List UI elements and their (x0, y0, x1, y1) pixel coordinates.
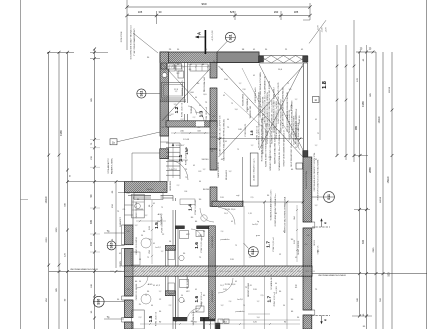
interior wall vertical main (210, 63, 217, 79)
svg-text:1.7: 1.7 (266, 241, 272, 248)
svg-text:H=2,60: H=2,60 (276, 286, 278, 294)
svg-text:1,2: 1,2 (203, 169, 206, 171)
svg-text:POW. 10,00 m2: POW. 10,00 m2 (201, 291, 203, 306)
svg-text:75: 75 (231, 103, 233, 105)
window in upper-left wall (161, 135, 169, 137)
svg-text:60: 60 (275, 213, 277, 215)
fixtures 1.4 (180, 199, 195, 205)
svg-text:1,2: 1,2 (257, 301, 260, 303)
kitchen counter 1.5 (132, 194, 145, 218)
terrace leader diagonals (242, 68, 262, 108)
svg-text:1,2: 1,2 (239, 83, 242, 85)
svg-text:75: 75 (185, 177, 187, 179)
svg-text:15610: 15610 (387, 176, 390, 183)
partition 1.2 bath (160, 99, 186, 101)
dark corner blob bottom (216, 323, 221, 329)
svg-text:OKNO O6: OKNO O6 (318, 246, 320, 255)
svg-text:TERMA: TERMA (190, 106, 193, 114)
svg-text:90: 90 (295, 147, 297, 149)
svg-text:75: 75 (167, 97, 169, 99)
svg-text:PION KAN.: PION KAN. (160, 214, 163, 225)
svg-text:KUCHNIA GAZ: KUCHNIA GAZ (203, 76, 206, 91)
svg-text:1,20: 1,20 (248, 213, 252, 215)
leader line to +5 labels (309, 20, 326, 43)
svg-text:UMOWNA GRANICA DZIALKI: UMOWNA GRANICA DZIALKI (318, 274, 346, 277)
svg-text:UMOWNA GRANICA DZIALKI: UMOWNA GRANICA DZIALKI (70, 268, 98, 271)
svg-text:90: 90 (247, 109, 249, 111)
svg-text:WC: WC (186, 234, 190, 236)
terrace corner posts (259, 56, 264, 62)
svg-text:PLYTA: PLYTA (290, 104, 293, 111)
svg-text:1.2: 1.2 (174, 106, 180, 113)
svg-text:45: 45 (223, 95, 225, 97)
partition top rooms (184, 63, 186, 122)
svg-text:45: 45 (153, 243, 155, 245)
svg-text:340: 340 (362, 239, 365, 244)
svg-text:WC KOMPAKT: WC KOMPAKT (186, 274, 189, 289)
svg-text:105: 105 (138, 10, 143, 14)
svg-text:1,2: 1,2 (315, 145, 318, 147)
lower unit bathroom walls (173, 317, 215, 321)
svg-text:1,2: 1,2 (249, 257, 252, 259)
svg-text:75: 75 (161, 207, 163, 209)
left dimension chains (48, 52, 50, 329)
fixtures lower 1.5 (132, 310, 145, 329)
svg-text:PODCIAG P1: PODCIAG P1 (244, 123, 247, 137)
svg-text:75: 75 (235, 245, 237, 247)
svg-text:kg: kg (257, 221, 259, 223)
svg-text:wyl.: wyl. (236, 195, 240, 197)
svg-text:1365: 1365 (361, 101, 365, 107)
svg-text:B: B (325, 318, 327, 322)
svg-text:80/200: 80/200 (147, 189, 154, 191)
svg-text:14810: 14810 (378, 116, 381, 123)
svg-text:14,2: 14,2 (220, 285, 224, 287)
section circle S12 (248, 247, 258, 257)
svg-text:TYNK CIENKOWARSTWOWY: TYNK CIENKOWARSTWOWY (133, 28, 136, 56)
svg-text:90: 90 (169, 115, 171, 117)
svg-text:90: 90 (163, 189, 165, 191)
svg-text:OKAP 60: OKAP 60 (298, 115, 301, 124)
svg-text:NOWY TRZPIEN ZELBETOWY 25x25 C: NOWY TRZPIEN ZELBETOWY 25x25 C20/25 (278, 82, 280, 124)
bathroom corner fixtures block (161, 63, 167, 69)
svg-text:1,2: 1,2 (161, 251, 164, 253)
svg-text:90/200: 90/200 (202, 159, 209, 161)
svg-text:NOWE NADPROZE STALOWE 2xC160 W: NOWE NADPROZE STALOWE 2xC160 WG KONSTR (268, 80, 271, 129)
svg-text:SCIANY DZIALOWE GR. 12cm Z PLY: SCIANY DZIALOWE GR. 12cm Z PLYT G-K (219, 115, 222, 155)
terrace inner dim line (217, 138, 303, 140)
top dimension chain (127, 6, 310, 8)
svg-text:290: 290 (274, 10, 279, 14)
svg-text:1365: 1365 (59, 130, 63, 136)
svg-text:B: B (325, 221, 327, 225)
interior wall horizontal hall top (166, 121, 217, 127)
right dimension chains (336, 45, 338, 156)
fixtures 1.3 (190, 64, 208, 71)
svg-text:ROZBIORKA: ROZBIORKA (242, 93, 245, 105)
svg-text:posadzka: posadzka (221, 239, 231, 241)
plot boundary line right (312, 273, 427, 275)
svg-text:1,2: 1,2 (295, 99, 298, 101)
svg-text:IZOLACJA TERMICZNA WELNA MINER: IZOLACJA TERMICZNA WELNA MINERALNA (282, 87, 285, 129)
svg-text:2865: 2865 (368, 167, 372, 173)
exterior wall: lower left with window gaps (124, 193, 126, 226)
small box right mid (296, 163, 303, 169)
window sills right wall (312, 221, 315, 223)
exterior wall: right (303, 157, 312, 222)
svg-text:1.3: 1.3 (199, 110, 205, 117)
wall pier left (160, 149, 169, 159)
partition lines in 1.7 (242, 157, 244, 206)
svg-text:60: 60 (151, 305, 153, 307)
svg-text:45: 45 (295, 257, 297, 259)
svg-text:60: 60 (275, 283, 277, 285)
svg-text:2865: 2865 (373, 247, 375, 253)
section circle S11 left (137, 89, 146, 98)
svg-text:+2,78: +2,78 (326, 27, 328, 33)
svg-text:OKNO O2 120/150: OKNO O2 120/150 (136, 236, 138, 254)
partition 1.5/1.4 (172, 196, 174, 247)
interior chain 1.7 right (296, 205, 298, 262)
svg-text:60: 60 (227, 119, 229, 121)
svg-text:90: 90 (181, 295, 183, 297)
svg-text:PARAPET: PARAPET (119, 216, 122, 226)
svg-text:POW. 10,00 m2: POW. 10,00 m2 (206, 106, 208, 121)
svg-text:±0,000 = 393,22 m n.p.m.: ±0,000 = 393,22 m n.p.m. (253, 158, 255, 181)
section circle S11 top (225, 32, 235, 42)
svg-text:BELKA B1: BELKA B1 (225, 169, 228, 180)
svg-text:+5,08: +5,08 (322, 27, 324, 33)
section circle S10 upper (107, 241, 116, 250)
svg-text:GAZOBETONOWEGO GR 24cm NA ZAPR: GAZOBETONOWEGO GR 24cm NA ZAPRAWIE CW (264, 76, 267, 124)
svg-text:POW. 10,00 m2: POW. 10,00 m2 (155, 311, 157, 326)
svg-text:1.4: 1.4 (188, 204, 194, 211)
svg-text:1.6: 1.6 (194, 296, 200, 303)
svg-text:525: 525 (230, 10, 235, 14)
svg-text:A: A (197, 32, 202, 35)
svg-text:RYNNA STALOWA FI 125 OCYNK: RYNNA STALOWA FI 125 OCYNK (295, 108, 298, 139)
section B marker lower (312, 315, 330, 317)
wall 1.6/1.7 (209, 226, 216, 266)
interior wall horizontal 1.4/1.7 (212, 201, 243, 206)
svg-text:2,4: 2,4 (221, 231, 224, 233)
svg-text:x: x (292, 269, 293, 271)
svg-text:ROZBIORKA ISTNIEJACEJ SCIANY D: ROZBIORKA ISTNIEJACEJ SCIANY DZIALOWEJ (273, 88, 276, 133)
svg-text:OBROBKA BLACH. PARAPETY ZEWN.: OBROBKA BLACH. PARAPETY ZEWN. STAL (313, 153, 316, 192)
svg-text:UM: UM (198, 235, 202, 237)
svg-text:GRZEJNIK: GRZEJNIK (170, 180, 172, 191)
section circle S10 lower (93, 296, 104, 307)
svg-text:NA RUSZCIE STALOWYM WYPELN. WE: NA RUSZCIE STALOWYM WYPELN. WELNA (223, 119, 226, 161)
svg-text:1,20: 1,20 (248, 285, 252, 287)
interior dim chain below top wall (168, 66, 210, 68)
svg-text:90: 90 (141, 235, 143, 237)
svg-text:90: 90 (181, 161, 183, 163)
svg-text:14810: 14810 (380, 196, 382, 203)
window sills left wall (122, 224, 125, 226)
svg-text:75: 75 (147, 257, 149, 259)
svg-text:60: 60 (199, 181, 201, 183)
svg-text:x: x (226, 271, 227, 273)
svg-text:ISTNIEJACA SCIANA ZEWNETRZNA Z: ISTNIEJACA SCIANA ZEWNETRZNA Z PUSTAKA (259, 72, 262, 118)
svg-text:ISTN. PION: ISTN. PION (121, 31, 123, 42)
svg-text:ZEWN.: ZEWN. (120, 260, 122, 267)
svg-text:PION WENT.: PION WENT. (212, 236, 214, 249)
svg-text:90: 90 (139, 281, 141, 283)
svg-text:45: 45 (153, 285, 155, 287)
svg-text:2,2: 2,2 (177, 185, 180, 187)
table 1.5 (141, 238, 151, 248)
ticks along right chains (391, 109, 394, 112)
svg-text:1.NP: 1.NP (185, 146, 189, 154)
interior chain bottom (140, 323, 300, 325)
svg-text:WANNA 170x75: WANNA 170x75 (181, 80, 184, 96)
section A arrow top (204, 30, 206, 54)
door arcs (218, 208, 235, 225)
svg-text:14x17,8: 14x17,8 (169, 169, 177, 171)
svg-text:SCIANKA GK 12: SCIANKA GK 12 (270, 273, 273, 289)
svg-text:h=2,2: h=2,2 (155, 247, 161, 249)
party wall band (125, 266, 313, 276)
svg-text:ZLEW: ZLEW (137, 209, 144, 211)
svg-text:1.8: 1.8 (250, 131, 254, 136)
fixtures 1.6 (180, 231, 189, 239)
svg-text:2,4: 2,4 (229, 301, 232, 303)
svg-text:MUR 24: MUR 24 (287, 110, 289, 118)
jog wall in 1.5/1.6 (165, 245, 175, 250)
svg-text:985: 985 (355, 125, 358, 130)
svg-text:1,2: 1,2 (251, 145, 254, 147)
svg-text:WIENIEC W1: WIENIEC W1 (250, 105, 252, 118)
svg-text:1,2: 1,2 (159, 291, 162, 293)
svg-text:90: 90 (203, 91, 205, 93)
svg-text:75: 75 (287, 83, 289, 85)
svg-text:240: 240 (90, 241, 93, 246)
marker box 1c (313, 97, 320, 103)
svg-text:OKNO O3 90/150: OKNO O3 90/150 (136, 283, 138, 300)
section B marker upper (312, 226, 330, 228)
svg-text:90: 90 (283, 305, 285, 307)
bathtub room 1.2 (162, 83, 185, 99)
terrace diagonals (219, 66, 304, 157)
svg-text:60: 60 (283, 141, 285, 143)
svg-text:45: 45 (195, 289, 197, 291)
svg-text:h=2,6: h=2,6 (252, 224, 258, 226)
partition hall/1.5 (128, 195, 173, 197)
terrace top beams (259, 55, 308, 57)
bathroom 1.6 walls (176, 226, 210, 229)
svg-text:185: 185 (294, 10, 299, 14)
svg-text:75: 75 (237, 149, 239, 151)
svg-text:90: 90 (295, 285, 297, 287)
svg-text:M: M (139, 259, 141, 261)
porch landing outline (132, 152, 160, 154)
svg-text:1.7: 1.7 (266, 296, 272, 303)
svg-text:2,2: 2,2 (169, 305, 172, 307)
marker box 1b (110, 139, 117, 145)
svg-text:60: 60 (195, 97, 197, 99)
svg-text:1,2: 1,2 (145, 215, 148, 217)
svg-text:posadzka: posadzka (236, 311, 246, 313)
svg-text:2,2: 2,2 (193, 117, 196, 119)
section circle S11 right (324, 192, 335, 203)
svg-text:17x18: 17x18 (183, 139, 190, 141)
svg-text:485: 485 (90, 219, 93, 224)
fixtures lower 1.6 (180, 279, 189, 287)
svg-text:SCHODY: SCHODY (176, 145, 186, 147)
svg-text:POKRYCIE DACHOWKA CERAMICZNA: POKRYCIE DACHOWKA CERAMICZNA (284, 196, 287, 233)
entrance door arc (168, 160, 188, 180)
svg-text:UMYWALKA 60: UMYWALKA 60 (192, 310, 195, 325)
interior dim chain hall (171, 132, 217, 134)
porch steps (134, 192, 163, 194)
svg-text:1365: 1365 (56, 227, 58, 233)
top-right small dimension chain (356, 51, 376, 53)
plot boundary line left (49, 271, 125, 273)
svg-text:gres: gres (256, 234, 260, 237)
svg-text:SCIANKA KOLANKOWA H=1,00m: SCIANKA KOLANKOWA H=1,00m (270, 189, 273, 220)
svg-text:45: 45 (315, 119, 317, 121)
svg-text:OCIEPLENIE POLACI WELNA 25cm: OCIEPLENIE POLACI WELNA 25cm (274, 193, 277, 226)
svg-text:+2,78 +5,08: +2,78 +5,08 (212, 30, 214, 42)
svg-text:h=2,6: h=2,6 (237, 299, 243, 301)
svg-text:1.5: 1.5 (148, 315, 154, 322)
interior dim texture (151, 200, 153, 264)
svg-text:POW. 10,00 m2: POW. 10,00 m2 (273, 236, 275, 251)
svg-text:x: x (268, 271, 269, 273)
terrace right beams (303, 63, 305, 157)
svg-text:75: 75 (243, 305, 245, 307)
svg-text:NADPROZE L19: NADPROZE L19 (217, 161, 220, 177)
svg-text:80/200: 80/200 (203, 189, 210, 191)
svg-text:PION WENT.: PION WENT. (212, 290, 214, 303)
svg-text:60: 60 (157, 221, 159, 223)
svg-text:75: 75 (317, 133, 319, 135)
svg-text:STROP GESTOZEBROWY TERIVA 4.0/: STROP GESTOZEBROWY TERIVA 4.0/1 (283, 129, 286, 167)
svg-text:POW. 10,00 m2: POW. 10,00 m2 (181, 102, 183, 117)
svg-text:OKNO 120/150: OKNO 120/150 (298, 240, 300, 255)
section A arrow bottom (203, 318, 205, 329)
svg-text:RURA SPUSTOWA FI100 OCYNK MALO: RURA SPUSTOWA FI100 OCYNK MALOWANA (317, 159, 320, 200)
svg-text:POW. 10,00 m2: POW. 10,00 m2 (195, 200, 197, 215)
exterior wall: top (160, 52, 259, 63)
svg-text:RURA SPUSTOWA: RURA SPUSTOWA (305, 170, 308, 189)
svg-text:45: 45 (231, 221, 233, 223)
hall diagonals (X over rooms) (162, 64, 215, 121)
svg-text:14,2: 14,2 (224, 213, 228, 215)
svg-text:16610: 16610 (389, 86, 391, 93)
svg-text:1.8: 1.8 (322, 81, 328, 89)
staircase (166, 142, 180, 144)
svg-text:WC: WC (186, 291, 190, 293)
drawing frame (20, 0, 22, 329)
svg-text:DOCIEPLENIE SCIANY WELNA 15cm: DOCIEPLENIE SCIANY WELNA 15cm (130, 24, 133, 59)
svg-text:75: 75 (145, 295, 147, 297)
svg-text:OKNO O1 90/150: OKNO O1 90/150 (136, 201, 138, 218)
svg-text:1.6: 1.6 (194, 242, 200, 249)
svg-text:45: 45 (235, 281, 237, 283)
svg-text:SCIANA NOSNA GR. 24cm Z PUSTAK: SCIANA NOSNA GR. 24cm Z PUSTAKA CER. (278, 129, 281, 171)
svg-text:STOLARKA PCV: STOLARKA PCV (107, 158, 110, 174)
porch wall strip (124, 182, 167, 193)
svg-text:x: x (240, 269, 241, 271)
svg-text:500: 500 (388, 272, 391, 277)
svg-text:2050: 2050 (46, 237, 48, 243)
level box (250, 153, 258, 186)
svg-text:POW. 28,4: POW. 28,4 (225, 209, 236, 211)
exterior wall: upper left (160, 52, 169, 136)
corner shaft fixtures (169, 65, 175, 71)
svg-text:45: 45 (253, 75, 255, 77)
svg-text:KROKIEW 8x16: KROKIEW 8x16 (255, 87, 257, 103)
svg-text:90: 90 (283, 231, 285, 233)
svg-text:POW. 10,00 m2: POW. 10,00 m2 (201, 237, 203, 252)
lower unit fixtures right of bath (218, 319, 223, 323)
svg-text:960: 960 (201, 2, 206, 6)
svg-text:140/25: 140/25 (314, 240, 316, 246)
svg-text:45: 45 (193, 165, 195, 167)
svg-text:45: 45 (199, 105, 201, 107)
svg-text:1,2: 1,2 (175, 91, 178, 93)
svg-text:45: 45 (153, 203, 155, 205)
svg-text:POW. 28,4: POW. 28,4 (225, 284, 236, 286)
svg-text:45: 45 (225, 141, 227, 143)
ticks along left chains (47, 154, 50, 157)
svg-text:14810: 14810 (45, 196, 48, 203)
entrance opening (159, 159, 161, 182)
svg-text:PARAPET ZEWN.: PARAPET ZEWN. (111, 157, 114, 174)
leader top-left corner (133, 33, 158, 53)
